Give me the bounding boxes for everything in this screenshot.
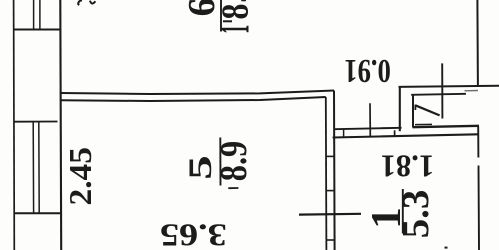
closet diagonal [415,105,439,115]
fraction bar room1 label [402,189,404,234]
closet diagonal stub [414,105,416,110]
svg-text:1: 1 [211,25,258,34]
small dash under label 8.9 [228,187,238,189]
wall tie 1 [326,155,334,157]
extension line x370 [369,103,371,136]
wall tie 3 [326,239,334,241]
closet bottom smear line [415,123,432,125]
room1 top wall upper line A [334,128,402,129]
svg-text:5.3: 5.3 [395,190,437,239]
wall outer left edge [13,0,16,250]
window glazing line W1a [33,0,35,30]
window divider middle [15,121,58,123]
room6 area dot mark [223,20,232,22]
svg-text:3.65: 3.65 [160,217,227,250]
room1 top wall lower line B [333,134,478,137]
cut glyph mark ) [90,1,95,4]
window glazing line W2b [38,122,40,213]
wall vertical inner (x326) [325,97,328,250]
wall room5/6 divider upper line [61,91,335,95]
closet inner left wall [412,95,414,128]
wall vertical outer (x334) [333,91,336,250]
cross dimension line at y214 [299,213,361,216]
svg-text:1.81: 1.81 [381,148,435,184]
closet top outer line [399,86,499,87]
fraction bar room5 label [219,138,221,186]
svg-text:8: 8 [214,4,256,20]
wall inner left edge [59,0,62,250]
speck bottom right [445,247,448,249]
closet top inner line [411,94,466,95]
window glazing line W2a [32,122,34,213]
svg-text:2.45: 2.45 [63,147,98,205]
closet bottom line [413,126,480,127]
wall tie 2 [326,190,335,192]
extension line x442 [441,63,443,118]
wall tick x343 [343,129,345,137]
fraction bar room6 label [220,0,222,32]
window glazing line W1b [39,0,41,30]
cut digit tip at top edge [241,0,246,1]
closet outer left wall [399,86,401,131]
wall room5/6 divider lower line [61,97,326,101]
right wall lower segment b [478,166,481,250]
right wall lower segment a [477,127,479,158]
svg-text:8.9: 8.9 [213,141,255,182]
closet faint inner segment right [465,90,479,92]
cut glyph mark ( [78,0,82,5]
window divider top [14,29,61,31]
window divider bottom [14,212,61,214]
right wall upper segment [476,0,479,87]
svg-text:0.91: 0.91 [344,52,391,90]
wall tick x394 [394,130,396,137]
